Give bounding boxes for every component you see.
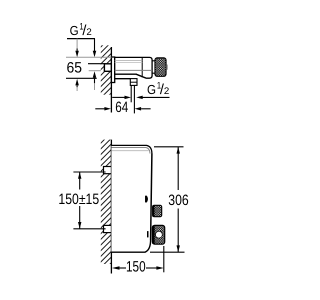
65-dim upper shaft (gray then arrow) <box>76 39 78 49</box>
neck to knob <box>152 60 155 62</box>
big knob left bar <box>152 226 154 244</box>
mounting stub top <box>104 167 112 174</box>
306 dim: top extension line <box>154 146 184 148</box>
306 dim: bottom extension line <box>150 251 185 253</box>
arrow up at x94.5 to y70.7 <box>93 71 97 78</box>
G1/2 top underline <box>67 38 95 40</box>
knob screw tick <box>147 231 149 237</box>
64 dim line right part <box>135 107 142 111</box>
label G1/2 (bottom of top drawing) <box>147 81 169 98</box>
svg-text:64: 64 <box>115 99 128 116</box>
wall face line (top drawing) <box>110 47 112 113</box>
valve body outline <box>115 57 152 78</box>
body mid gray line <box>115 69 152 71</box>
G1/2 leader drop line <box>94 39 96 52</box>
outlet pipe <box>130 85 132 102</box>
wall face line (bottom drawing) <box>110 140 112 274</box>
G1/2 leader line (points left at pipe) <box>142 96 170 98</box>
svg-text:2: 2 <box>164 86 169 97</box>
mounting stub bottom <box>104 225 112 232</box>
extension line gray y57.3 <box>66 56 111 58</box>
small knurled button <box>153 205 162 216</box>
panel top second line <box>111 148 150 154</box>
150±15 dim: bottom extension line <box>73 228 105 230</box>
outlet nut <box>130 79 137 86</box>
wall hatch (bottom drawing) <box>101 140 112 264</box>
extension line black y63.7 (stub top) <box>88 63 106 65</box>
knob nub <box>166 64 168 70</box>
extension line black y78.3 (65 bottom) <box>66 77 97 79</box>
svg-text:G: G <box>70 23 79 38</box>
panel top edge <box>111 145 151 153</box>
150 dim (bottom): right extension line <box>163 246 165 272</box>
body internal vertical line (cap junction) <box>141 57 143 77</box>
306 dim line + arrows <box>177 147 179 190</box>
panel right edge <box>151 154 152 241</box>
150±15 dim: top extension line <box>73 171 105 173</box>
panel top third faint line <box>111 150 148 152</box>
label G1/2 (top) <box>70 22 92 39</box>
150±15 dim line + arrows <box>79 172 81 190</box>
body shading lines <box>115 59 143 61</box>
knurled knob (side view) <box>155 58 166 76</box>
body lower boss lines <box>115 74 147 78</box>
handle blob on edge <box>145 196 147 202</box>
150 dim line + arrows <box>112 266 120 269</box>
small button left bar <box>152 205 154 216</box>
knob circle <box>156 231 163 238</box>
svg-text:2: 2 <box>86 27 91 38</box>
opposing arrow pointing right at pipe <box>112 96 124 98</box>
panel bottom edge with corner <box>111 240 150 252</box>
panel body fill <box>111 145 151 252</box>
flange at wall <box>111 57 114 83</box>
arrow down at x94.5 to y57.3 <box>93 51 97 58</box>
inlet stub in wall <box>104 64 111 72</box>
arrow up at x77.1 to y78.3 <box>75 79 79 86</box>
svg-text:150±15: 150±15 <box>58 191 99 208</box>
svg-text:306: 306 <box>168 192 188 209</box>
svg-text:65: 65 <box>67 59 83 76</box>
arrow down at x77.1 to y57.3 <box>75 51 79 58</box>
extension line gray y70.7 <box>89 70 101 72</box>
wall hatch (top drawing) <box>101 45 112 94</box>
svg-text:150: 150 <box>126 258 146 275</box>
big knurled knob <box>152 225 164 244</box>
svg-text:G: G <box>147 82 156 97</box>
64 dim line left part <box>95 108 104 110</box>
